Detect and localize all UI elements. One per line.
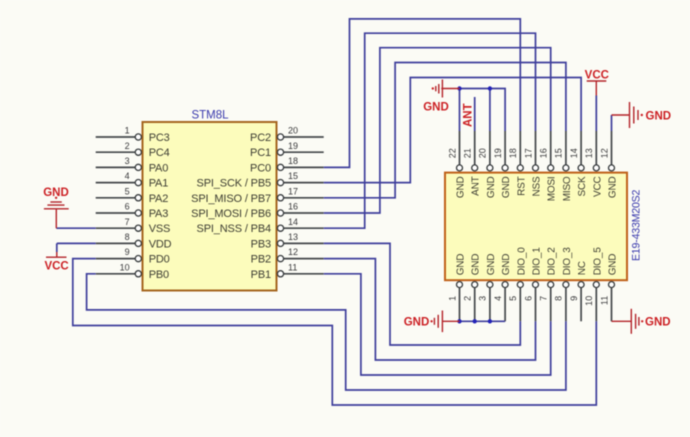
svg-text:DIO_5: DIO_5	[592, 247, 603, 276]
U1 pin 13 (PB3) stub wire	[284, 242, 324, 244]
U2 pin 11 circle	[609, 282, 615, 288]
IC U1 STM8L body	[143, 122, 277, 291]
svg-text:GND: GND	[456, 177, 467, 199]
U2 pin 6 circle	[533, 282, 539, 288]
svg-text:PC4: PC4	[149, 147, 170, 159]
U1 pin 3 circle	[135, 164, 141, 170]
svg-text:PB2: PB2	[251, 254, 271, 266]
U1 pin 12 (PB2) stub wire	[284, 258, 324, 260]
wire net SPI_MISO to MISO (U1.17 - U2.15)	[324, 63, 566, 198]
U1 pin 4 (PA1) stub wire	[96, 182, 136, 184]
svg-text:PC1: PC1	[250, 147, 271, 159]
svg-text:DIO_3: DIO_3	[562, 247, 573, 276]
U1 pin 11 (PB1) stub wire	[284, 273, 324, 275]
svg-text:GND: GND	[646, 110, 672, 122]
wire net PB1 to DIO_2 (U1.11 - U2.7)	[324, 274, 551, 375]
svg-text:9: 9	[125, 247, 130, 257]
svg-text:GND: GND	[501, 177, 512, 199]
U2 pin 9 circle	[578, 282, 584, 288]
U2 pin 3 circle	[487, 282, 493, 288]
U2 pin 11 (GND) stub wire	[611, 288, 613, 322]
U2 pin 19 (GND) stub wire	[504, 131, 506, 165]
U2 pin 15 circle	[563, 165, 569, 171]
wire VCC wire down to U2.13	[595, 96, 597, 132]
U2 pin 1 circle	[457, 282, 463, 288]
U2 pin 2 (GND) stub wire	[474, 288, 476, 322]
U1 pin 19 (PC1) stub wire	[284, 151, 324, 153]
svg-text:GND: GND	[486, 177, 497, 199]
U2 pin 9 (NC) stub wire	[580, 288, 582, 322]
svg-text:4: 4	[125, 171, 130, 181]
U1 pin 2 (PC4) stub wire	[96, 151, 136, 153]
U2 pin 8 circle	[563, 282, 569, 288]
U1 pin 8 (VDD) stub wire	[96, 242, 136, 244]
U1 pin 14 (SPI_NSS / PB4) stub wire	[284, 227, 324, 229]
wire net VDD to VCC (U1.8)	[57, 242, 96, 244]
wire VDD drop to VCC symbol	[56, 243, 58, 252]
svg-text:VCC: VCC	[44, 261, 68, 273]
svg-text:1: 1	[125, 126, 130, 136]
U1 pin 4 circle	[135, 180, 141, 186]
svg-text:6: 6	[523, 296, 533, 301]
svg-text:VCC: VCC	[585, 70, 609, 82]
U1 pin 6 circle	[135, 210, 141, 216]
svg-text:MOSI: MOSI	[547, 177, 558, 202]
wire net ANT stub up from U2.21	[474, 97, 476, 131]
wire GND bus bottom U2 pins 1-4	[460, 320, 506, 322]
svg-text:MISO: MISO	[562, 176, 573, 201]
svg-text:PA1: PA1	[149, 178, 169, 190]
ground symbol GND (top left, bus for U2 pins 22/20/19)	[436, 80, 460, 98]
U2 pin 18 (RST) stub wire	[519, 131, 521, 165]
junction dot at U2.22 on top GND bus	[457, 86, 461, 90]
svg-text:PC2: PC2	[250, 132, 271, 144]
svg-text:19: 19	[288, 141, 298, 151]
svg-text:ANT: ANT	[463, 103, 475, 127]
U1 pin 20 circle	[277, 134, 283, 140]
U2 pin 14 (SCK) stub wire	[580, 131, 582, 165]
wire net SPI_SCK to SCK (U1.15 - U2.14)	[324, 78, 581, 183]
svg-text:SCK: SCK	[577, 176, 588, 196]
wire net PC0 to RST (U1.18 - U2.18)	[324, 19, 521, 168]
svg-text:PA3: PA3	[149, 208, 169, 220]
U1 pin 2 circle	[135, 149, 141, 155]
svg-text:14: 14	[288, 217, 298, 227]
U2 pin 22 (GND) stub wire	[459, 131, 461, 165]
svg-text:SPI_SCK / PB5: SPI_SCK / PB5	[197, 178, 272, 190]
U2 pin 21 circle	[472, 165, 478, 171]
svg-text:7: 7	[125, 217, 130, 227]
U2 pin 13 (VCC) stub wire	[595, 131, 597, 165]
junction dot at U2.20 on top GND bus	[488, 86, 492, 90]
svg-text:16: 16	[539, 148, 549, 158]
wire net SPI_NSS to NSS (U1.14 - U2.17)	[324, 33, 536, 228]
junction dot at U2.2 on bottom GND bus	[473, 319, 477, 323]
U1 pin 20 (PC2) stub wire	[284, 136, 324, 138]
U2 pin 17 circle	[533, 165, 539, 171]
junction dot at U2.3 on bottom GND bus	[488, 319, 492, 323]
wire net SPI_MOSI to MOSI (U1.16 - U2.16)	[324, 48, 551, 213]
U2 pin 3 (GND) stub wire	[489, 288, 491, 322]
svg-text:13: 13	[584, 148, 594, 158]
wire GND bus drop to U2.20	[489, 89, 491, 132]
U2 pin 10 circle	[593, 282, 599, 288]
U1 pin 7 (VSS) stub wire	[96, 227, 136, 229]
svg-text:14: 14	[569, 148, 579, 158]
svg-text:11: 11	[288, 262, 297, 272]
svg-text:NC: NC	[577, 261, 588, 275]
U2 pin 4 (GND) stub wire	[504, 288, 506, 322]
svg-text:E19-433M20S2: E19-433M20S2	[631, 189, 643, 261]
svg-text:NSS: NSS	[532, 176, 543, 196]
ground symbol GND (left, VSS)	[44, 202, 69, 228]
U1 pin 6 (PA3) stub wire	[96, 212, 136, 214]
svg-text:VDD: VDD	[149, 238, 172, 250]
U1 pin 12 circle	[277, 256, 283, 262]
U1 pin 5 circle	[135, 195, 141, 201]
svg-text:16: 16	[288, 202, 298, 212]
svg-text:19: 19	[493, 148, 503, 158]
U2 pin 7 (DIO_2) stub wire	[550, 288, 552, 322]
wire net PB3 to DIO_0 (U1.13 - U2.5)	[324, 243, 521, 345]
U2 pin 18 circle	[517, 165, 523, 171]
U1 pin 9 circle	[135, 256, 141, 262]
U1 pin 11 circle	[277, 271, 283, 277]
svg-text:18: 18	[508, 148, 518, 158]
junction dot at U2.1 on bottom GND bus	[457, 319, 461, 323]
svg-text:GND: GND	[608, 254, 619, 276]
U2 pin 14 circle	[578, 165, 584, 171]
ground symbol GND (bottom left)	[434, 311, 459, 333]
U2 pin 10 (DIO_5) stub wire	[595, 288, 597, 322]
svg-text:22: 22	[447, 148, 457, 158]
U2 pin 20 circle	[487, 165, 493, 171]
U2 pin 13 circle	[593, 165, 599, 171]
wire net PB0 to DIO_3 (U1.10 - U2.8)	[87, 274, 566, 390]
svg-text:18: 18	[288, 156, 298, 166]
ground symbol GND (bottom right, U2.11)	[612, 309, 639, 334]
svg-text:DIO_1: DIO_1	[532, 247, 543, 276]
U2 pin 16 circle	[548, 165, 554, 171]
svg-text:SPI_NSS / PB4: SPI_NSS / PB4	[197, 223, 272, 235]
svg-text:3: 3	[125, 156, 130, 166]
IC U2 E19-433M20S2 body	[445, 173, 627, 281]
U2 pin 5 (DIO_0) stub wire	[519, 288, 521, 322]
svg-text:VSS: VSS	[149, 223, 171, 235]
svg-text:15: 15	[288, 171, 298, 181]
U1 pin 5 (PA2) stub wire	[96, 197, 136, 199]
svg-text:8: 8	[125, 232, 130, 242]
U2 pin 5 circle	[517, 282, 523, 288]
U1 pin 7 circle	[135, 225, 141, 231]
svg-text:5: 5	[508, 296, 518, 301]
svg-text:SPI_MOSI / PB6: SPI_MOSI / PB6	[191, 208, 271, 220]
U2 pin 16 (MOSI) stub wire	[550, 131, 552, 165]
svg-text:11: 11	[599, 296, 609, 305]
wire GND bus top horizontal to U2.19	[460, 89, 506, 132]
U1 pin 13 circle	[277, 240, 283, 246]
svg-text:20: 20	[288, 126, 298, 136]
U2 pin 4 circle	[502, 282, 508, 288]
U1 pin 3 (PA0) stub wire	[96, 166, 136, 168]
svg-text:17: 17	[288, 186, 298, 196]
svg-text:GND: GND	[456, 254, 467, 276]
svg-text:GND: GND	[645, 317, 671, 329]
svg-text:ANT: ANT	[471, 176, 482, 195]
wire net VSS to GND (U1.7)	[56, 227, 95, 229]
svg-text:PB1: PB1	[251, 269, 271, 281]
svg-text:2: 2	[463, 296, 473, 301]
U1 pin 17 circle	[277, 195, 283, 201]
U2 pin 8 (DIO_3) stub wire	[565, 288, 567, 322]
svg-text:GND: GND	[501, 254, 512, 276]
U1 pin 14 circle	[277, 225, 283, 231]
U2 pin 17 (NSS) stub wire	[535, 131, 537, 165]
svg-text:PA2: PA2	[149, 193, 169, 205]
svg-text:GND: GND	[43, 187, 69, 199]
svg-text:RST: RST	[516, 176, 527, 195]
svg-text:STM8L: STM8L	[191, 109, 229, 121]
svg-text:PC0: PC0	[250, 162, 271, 174]
U1 pin 10 (PB0) stub wire	[96, 273, 136, 275]
U1 pin 1 circle	[135, 134, 141, 140]
wire GND bus drop to U2.22	[459, 89, 461, 132]
U1 pin 10 circle	[135, 271, 141, 277]
svg-text:GND: GND	[471, 254, 482, 276]
svg-text:GND: GND	[608, 177, 619, 199]
U1 pin 19 circle	[277, 149, 283, 155]
svg-text:10: 10	[120, 262, 130, 272]
svg-text:8: 8	[554, 296, 564, 301]
svg-text:1: 1	[447, 296, 457, 301]
svg-text:9: 9	[569, 296, 579, 301]
svg-text:PD0: PD0	[149, 254, 170, 266]
U2 pin 21 (ANT) stub wire	[474, 131, 476, 165]
wire net PD0 to DIO_5 (U1.9 - U2.10)	[73, 259, 597, 405]
power symbol VCC (left)	[46, 252, 67, 257]
svg-text:13: 13	[288, 232, 298, 242]
U1 pin 16 circle	[277, 210, 283, 216]
U1 pin 18 (PC0) stub wire	[284, 166, 324, 168]
svg-text:17: 17	[523, 148, 533, 158]
U2 pin 7 circle	[548, 282, 554, 288]
U1 pin 15 circle	[277, 180, 283, 186]
U2 pin 1 (GND) stub wire	[459, 288, 461, 322]
svg-text:12: 12	[599, 148, 609, 158]
svg-text:20: 20	[478, 148, 488, 158]
svg-text:PC3: PC3	[149, 132, 170, 144]
power symbol VCC (top)	[587, 81, 607, 96]
U1 pin 8 circle	[135, 240, 141, 246]
svg-text:DIO_2: DIO_2	[547, 247, 558, 276]
svg-text:PB3: PB3	[251, 238, 271, 250]
svg-text:6: 6	[125, 202, 130, 212]
svg-text:15: 15	[554, 148, 564, 158]
svg-text:3: 3	[478, 296, 488, 301]
svg-text:21: 21	[463, 148, 473, 158]
svg-text:GND: GND	[423, 101, 449, 113]
svg-text:7: 7	[539, 296, 549, 301]
U1 pin 1 (PC3) stub wire	[96, 136, 136, 138]
svg-text:5: 5	[125, 186, 130, 196]
U2 pin 2 circle	[472, 282, 478, 288]
U2 pin 20 (GND) stub wire	[489, 131, 491, 165]
U1 pin 18 circle	[277, 164, 283, 170]
svg-text:DIO_0: DIO_0	[516, 247, 527, 276]
U1 pin 15 (SPI_SCK / PB5) stub wire	[284, 182, 324, 184]
wire net PB2 to DIO_1 (U1.12 - U2.6)	[324, 259, 536, 360]
U2 pin 22 circle	[457, 165, 463, 171]
svg-text:SPI_MISO / PB7: SPI_MISO / PB7	[191, 193, 271, 205]
U2 pin 6 (DIO_1) stub wire	[535, 288, 537, 322]
svg-text:PA0: PA0	[149, 162, 169, 174]
U1 pin 17 (SPI_MISO / PB7) stub wire	[284, 197, 324, 199]
svg-text:PB0: PB0	[149, 269, 169, 281]
svg-text:2: 2	[125, 141, 130, 151]
svg-text:12: 12	[288, 247, 298, 257]
svg-text:VCC: VCC	[592, 177, 603, 198]
U1 pin 9 (PD0) stub wire	[96, 258, 136, 260]
svg-text:4: 4	[493, 296, 503, 301]
wire GND wire up from U2.12	[611, 115, 613, 131]
U2 pin 12 circle	[609, 165, 615, 171]
U1 pin 16 (SPI_MOSI / PB6) stub wire	[284, 212, 324, 214]
ground symbol GND (top right)	[612, 102, 639, 128]
svg-text:GND: GND	[404, 317, 430, 329]
svg-text:10: 10	[584, 296, 594, 306]
U2 pin 15 (MISO) stub wire	[565, 131, 567, 165]
U2 pin 19 circle	[502, 165, 508, 171]
svg-text:GND: GND	[486, 254, 497, 276]
U2 pin 12 (GND) stub wire	[611, 131, 613, 165]
